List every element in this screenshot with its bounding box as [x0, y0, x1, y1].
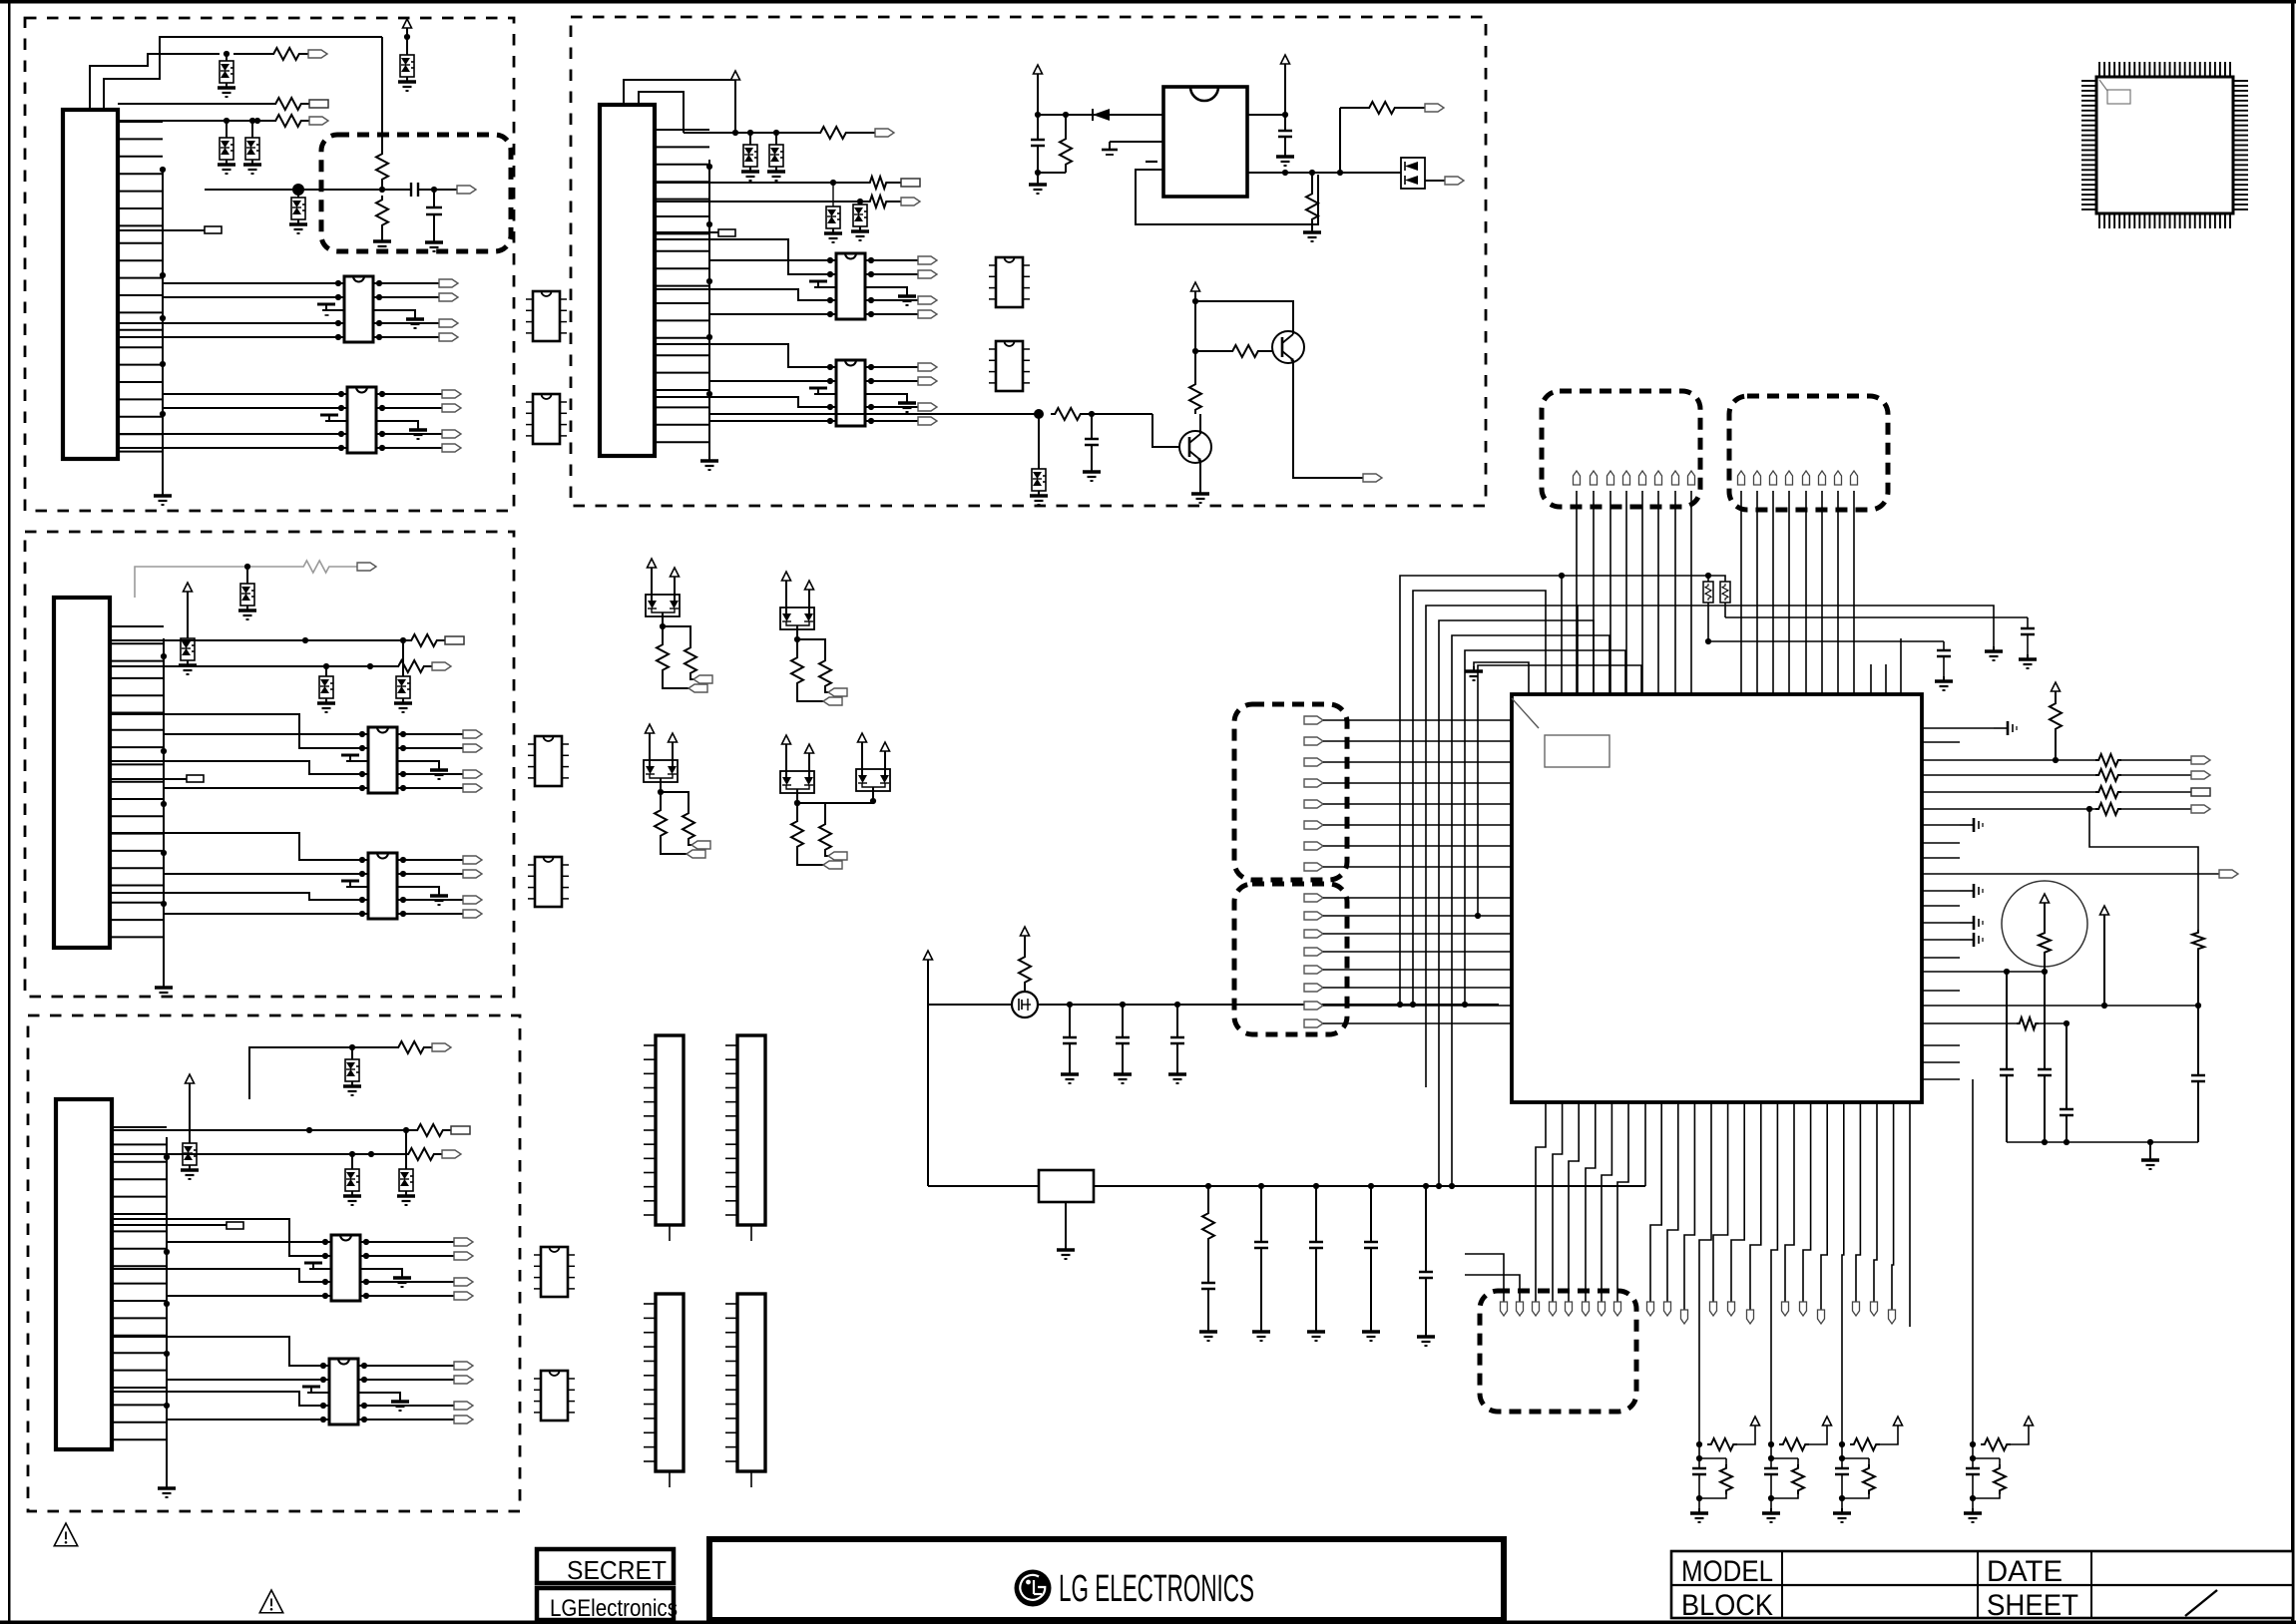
remote box 7 pins: [1304, 716, 1323, 871]
connector CN3: [56, 1099, 112, 1449]
page frame bottom border: [0, 1621, 2296, 1624]
Q2 emitter wire to output pin: [1293, 360, 1363, 478]
decoupling cap stub row 730: [1960, 721, 2017, 735]
U2 output wires and terminal pins: [382, 390, 461, 452]
terminal pin for R6: [445, 636, 464, 644]
capacitor C7 on rail: [1114, 1005, 1132, 1083]
boxed resistor pack RP1: [1703, 582, 1713, 603]
page frame right border: [2291, 0, 2295, 1624]
wires CN3 to IC U5: [112, 1219, 325, 1296]
TVS filter T14: [741, 133, 759, 181]
VCC arrow RC network RC2: [1823, 1417, 1832, 1425]
wire row 1008: [1960, 1003, 2201, 1009]
VCC arrow at U9 output: [1281, 55, 1290, 115]
CN1 pin wires to bus: [118, 122, 163, 452]
resistor R8 row: [112, 1124, 451, 1136]
decoupling cap stub row 893: [1960, 884, 1983, 898]
TVS filter T11: [181, 1143, 199, 1179]
terminal pin row 2: [2191, 771, 2210, 779]
terminal pin for R1: [308, 50, 327, 58]
U7 ground left: [809, 281, 836, 287]
terminal pin for R12: [901, 198, 920, 205]
jumper pad in block 2: [110, 775, 204, 782]
dashed block outline - key matrix block 3 (bottom-left): [28, 1015, 520, 1511]
dashed remote box 9: [1480, 1291, 1636, 1412]
CN4 pin wires to bus: [655, 130, 709, 442]
terminal pin A module DM2: [823, 697, 842, 705]
U8 output wires and terminal pins: [871, 363, 937, 425]
RC network RC1 capacitor: [1692, 1444, 1706, 1508]
terminal pin far right: [2219, 870, 2238, 878]
terminal pin B module DM4: [828, 852, 847, 860]
U5 left pin dots: [322, 1239, 331, 1299]
connector CN1: [63, 110, 118, 459]
wire from CN4 top: [624, 80, 735, 133]
capacitor C4 output: [1276, 115, 1294, 166]
svg-text:DATE: DATE: [1987, 1555, 2063, 1588]
TVS filter T1: [220, 51, 233, 83]
CN2 ground bus wire: [161, 638, 167, 983]
wires CN1 to IC U1: [118, 283, 338, 337]
U3 right pin dots: [397, 731, 406, 791]
terminal pin for R11: [901, 179, 920, 187]
bus vertical 3 left of IC: [1426, 606, 1994, 1087]
riser and resistor R15: [1340, 102, 1425, 173]
regulator IC U9: [1163, 87, 1247, 197]
feed wire to resistor packs: [1708, 576, 1725, 582]
terminal pin for R7: [432, 662, 451, 670]
regulator output rail: [1094, 1183, 1645, 1189]
remote box 8 pins: [1304, 894, 1323, 1027]
U4 ground right: [397, 887, 448, 905]
U4 ground left: [341, 881, 368, 887]
terminal pin top of block 3: [432, 1043, 451, 1051]
bus vertical 2 left of IC: [1410, 591, 1546, 1008]
ground RC network RC2: [1762, 1508, 1780, 1522]
U5 ground right: [360, 1269, 411, 1287]
wire from RP1 to cap: [1705, 603, 1944, 644]
long stub wire at IC bottom right: [1909, 1102, 1911, 1327]
remote box 6 wires down to IC: [1741, 491, 1854, 694]
link wire DM5 to DM4: [794, 800, 873, 806]
VCC pullup resistor right of IC: [2050, 682, 2062, 763]
connector CN7: [644, 1294, 684, 1487]
RC network RC4 capacitor: [1966, 1444, 1980, 1508]
bus vertical 5 left of IC: [1449, 635, 1609, 1189]
TVS filter T8: [317, 663, 335, 712]
svg-text:LG ELECTRONICS: LG ELECTRONICS: [1059, 1568, 1254, 1610]
vertical from feed dot into IC top: [1561, 576, 1563, 694]
capacitor C2 to ground in sub-block: [425, 190, 443, 251]
VCC arrow and resistor above MOSFET: [1019, 927, 1031, 992]
resistor left of module DM3: [655, 792, 687, 854]
U10 right pin stubs: [1922, 728, 1960, 1079]
bus vertical 4 left of IC: [1436, 620, 1594, 1189]
regulator REG1: [1039, 1170, 1094, 1202]
IC S4 (SOIC-8): [528, 857, 569, 907]
ground RC network RC4: [1964, 1508, 1982, 1522]
resistor R6 row: [110, 634, 445, 646]
TVS filter T7: [179, 638, 197, 674]
wire into regulator: [928, 1185, 1039, 1187]
transistor Q1 (NPN): [1152, 414, 1211, 463]
RC network RC2 parallel resistor: [1768, 1458, 1804, 1501]
top wire of block 3: [249, 1041, 432, 1099]
ground for C3: [1029, 180, 1047, 194]
RC network RC3 parallel resistor: [1839, 1458, 1875, 1501]
resistor left of module DM4: [791, 803, 823, 865]
U3 left pin dots: [359, 731, 368, 791]
LG logo: [1015, 1570, 1052, 1607]
decoupling cap stub row 827: [1960, 818, 1983, 832]
terminal pin for R8: [451, 1126, 470, 1134]
resistor R18 to Q2 base: [1195, 345, 1274, 357]
TVS filter T16: [824, 183, 842, 242]
terminal pin A module DM1: [689, 684, 707, 692]
VCC arrow block 4: [731, 71, 740, 136]
connector CN5: [644, 1035, 684, 1241]
ground RC network RC3: [1833, 1508, 1851, 1522]
RC network RC4 pull-up resistor: [1970, 1425, 2029, 1450]
terminal pin row 1: [2191, 756, 2210, 764]
U7 ground right: [865, 287, 916, 305]
wires CN2 to IC U4: [110, 833, 362, 914]
U8 right pin dots: [865, 364, 874, 424]
wire below circle: [1960, 969, 2045, 975]
resistor row 3 right of IC: [1960, 786, 2191, 798]
wire from CN1 top to TVS T1: [90, 54, 220, 110]
capacitor C10: [1307, 1186, 1325, 1341]
dashed block outline - key matrix block 2 (mid-left): [25, 532, 514, 997]
dual diode module DM5: [856, 733, 890, 804]
IC S7 (SOIC-8): [989, 257, 1030, 307]
riser from rail to regulator rail: [927, 1005, 929, 1186]
bus vertical 7 left of IC: [1475, 665, 1641, 919]
terminal pin B module DM2: [828, 688, 847, 696]
terminal pin for R15: [1425, 104, 1444, 112]
U9 pin tick: [1146, 161, 1157, 163]
U1 left pin dots: [335, 280, 344, 340]
U8 ground right: [865, 394, 916, 412]
ground for CN4 bus: [700, 456, 718, 470]
calibration circle: [2002, 881, 2087, 967]
resistor R3 row: [118, 115, 309, 127]
U3 ground left: [341, 755, 368, 761]
terminal pin B module DM1: [693, 675, 712, 683]
bus vertical 6 left of IC: [1462, 650, 1625, 1008]
VCC arrow block 2: [184, 583, 193, 638]
photocoupler diode module: [1401, 158, 1445, 189]
dashed block outline - block 4 (top-middle): [571, 17, 1486, 506]
IC S1 (SOIC-8): [526, 291, 567, 341]
TVS filter T15: [767, 133, 785, 181]
long wire row to far pin: [1960, 873, 2219, 875]
jumper pad in block 3: [112, 1222, 243, 1229]
U1 output wires and terminal pins: [379, 279, 458, 341]
wire row with TVS pair block 4: [684, 130, 816, 136]
wire from RP2 to cap: [1725, 603, 2028, 617]
CN3 pin wires to bus: [112, 1127, 167, 1439]
U7 right pin dots: [865, 257, 874, 317]
SECRET box: [537, 1549, 678, 1622]
svg-text:SECRET: SECRET: [567, 1555, 667, 1585]
U2 right pin dots: [376, 391, 385, 451]
VCC arrow and TVS T2 top right of block 1: [382, 19, 416, 150]
VCC arrow RC network RC1: [1751, 1417, 1760, 1425]
rail riser into IC bottom: [1644, 1102, 1646, 1186]
ground for T1: [218, 83, 235, 97]
RC network RC3 capacitor: [1835, 1444, 1849, 1508]
U5 output wires and terminal pins: [366, 1238, 473, 1300]
connector CN6: [725, 1035, 765, 1241]
resistor R9 row: [112, 1148, 442, 1160]
resistor row 1026: [1960, 1017, 2069, 1109]
decoupling cap stub row 925: [1960, 916, 1983, 930]
VCC arrow power section: [1034, 65, 1043, 118]
U6 left pin dots: [320, 1363, 329, 1422]
terminal pin row 3: [2191, 788, 2210, 796]
page frame left border: [8, 0, 11, 1624]
connector CN8: [725, 1294, 765, 1487]
U6 ground right: [358, 1393, 409, 1411]
CN2 pin wires to bus: [110, 626, 164, 937]
power rail wire: [928, 1002, 1499, 1008]
QFP IC U11 body: [2096, 77, 2233, 213]
Q1 collector resistor R17: [1189, 380, 1201, 434]
capacitor C12: [1417, 1186, 1435, 1346]
QFP U11 pins: [2081, 62, 2248, 228]
svg-text:BLOCK: BLOCK: [1681, 1589, 1773, 1622]
sub-block signal wire and junction node: [205, 184, 411, 196]
VCC arrow RC network RC4: [2025, 1417, 2034, 1425]
terminal pin gray wire: [357, 563, 376, 571]
ground for IC top hook: [1465, 666, 1483, 680]
remote box 5 wires down to IC: [1577, 491, 1691, 694]
terminal pin A module DM3: [687, 850, 705, 858]
resistor R2 row: [118, 98, 309, 110]
bottom fan group D wires: [1785, 1102, 1827, 1310]
U3 output wires and terminal pins: [403, 730, 482, 792]
resistor right of module DM2: [797, 639, 831, 692]
TVS filter T18: [1030, 414, 1048, 505]
resistor right of module DM3: [661, 792, 694, 845]
ground for REG1: [1057, 1202, 1075, 1259]
IC S5 (SOIC-8): [534, 1247, 575, 1297]
U9 output bottom wire: [1247, 170, 1401, 176]
IC U4 (DIP-8): [368, 853, 397, 919]
RC network RC1 pull-up resistor: [1696, 1425, 1755, 1450]
terminal pin transistor output: [1363, 474, 1382, 482]
VCC arrow left of power rail: [924, 951, 933, 1005]
terminal pin for R9: [442, 1150, 461, 1158]
U9 output top wire: [1247, 112, 1288, 118]
wire to regulator input: [1038, 112, 1163, 118]
decoupling cap stub row 942: [1960, 933, 1983, 947]
page frame top border: [0, 0, 2296, 4]
IC U5 (DIP-8): [331, 1235, 360, 1301]
VCC arrow right column: [2100, 906, 2109, 1009]
IC S2 (SOIC-8): [526, 394, 567, 444]
bus vertical 1 left of IC: [1397, 573, 1717, 1008]
resistor R14 to ground: [1303, 173, 1321, 241]
capacitor C14: [2019, 617, 2037, 668]
pin row group D: [1782, 1302, 1825, 1324]
resistor R16: [1051, 408, 1152, 420]
VCC feed for transistor stage: [1191, 282, 1200, 380]
IC U7 (DIP-8): [836, 253, 865, 319]
wires CN2 to IC U3: [110, 714, 362, 788]
RC network RC2 capacitor: [1764, 1444, 1778, 1508]
warning triangle 2: [259, 1590, 282, 1613]
TVS filter T17: [851, 202, 869, 240]
terminal pin B module DM3: [691, 841, 710, 849]
pin row group C: [1710, 1302, 1754, 1324]
U4 output wires and terminal pins: [403, 856, 482, 918]
terminal pin photocoupler: [1445, 177, 1464, 185]
U6 right pin dots: [358, 1363, 367, 1422]
U7 left pin dots: [827, 257, 836, 317]
capacitor C3 input filter: [1031, 115, 1045, 180]
feed wires pins A1 A2 from left: [1465, 1254, 1520, 1302]
resistor R11 row: [655, 177, 901, 189]
U6 output wires and terminal pins: [364, 1362, 473, 1423]
U3 ground right: [397, 761, 448, 779]
capacitor C5: [1083, 414, 1101, 481]
VCC arrow RC network RC3: [1894, 1417, 1903, 1425]
TVS filter T13: [397, 1127, 415, 1205]
TVS filter T12: [343, 1151, 361, 1205]
CN4 ground bus wire: [706, 160, 712, 456]
capacitor bank below circle: [2000, 972, 2205, 1142]
U2 left pin dots: [338, 391, 347, 451]
transistor Q2 (NPN): [1272, 331, 1304, 363]
U2 ground left: [320, 415, 347, 421]
pin row group E: [1853, 1302, 1896, 1324]
dashed remote box 7: [1234, 704, 1347, 880]
MOSFET Q3: [1012, 992, 1038, 1017]
bottom fan group A wires: [1536, 1102, 1628, 1302]
capacitor C6 on rail: [1061, 1005, 1079, 1083]
far right resistor to caps: [2192, 930, 2204, 1075]
branch wire from row 4 down: [2089, 809, 2198, 930]
IC U1 (DIP-8): [344, 276, 373, 342]
Q2 collector wire: [1195, 301, 1293, 334]
wire to RC network 3: [1842, 1102, 1844, 1444]
sheet slash mark: [2185, 1590, 2217, 1616]
U7 output wires and terminal pins: [871, 256, 937, 318]
resistor inside circle: [2039, 930, 2051, 975]
ground for CN2 bus: [155, 983, 173, 997]
diode D1: [1093, 109, 1110, 121]
IC S8 (SOIC-8): [989, 341, 1030, 391]
capacitor C11: [1362, 1186, 1380, 1341]
U2 ground right: [376, 421, 427, 439]
RC network RC4 parallel resistor: [1970, 1458, 2006, 1501]
U5 ground left: [304, 1263, 331, 1269]
main title block with LG logo: [709, 1539, 1504, 1620]
wire to RC network 2: [1771, 1102, 1777, 1444]
dual diode module DM1: [646, 559, 680, 629]
wires CN4 to IC U7: [655, 239, 830, 314]
RC network RC1 parallel resistor: [1696, 1458, 1732, 1501]
resistor right of module DM1: [663, 626, 696, 679]
ground for capacitor bank: [2141, 1142, 2159, 1169]
dual diode module DM3: [644, 724, 678, 795]
U1 right pin dots: [373, 280, 382, 340]
remote box 7 wires to IC: [1323, 720, 1512, 867]
IC S6 (SOIC-8): [534, 1371, 575, 1421]
terminal pin for R10: [875, 129, 894, 137]
wires CN4 to IC U8: [655, 344, 830, 421]
resistor R10: [816, 127, 875, 139]
U5 right pin dots: [360, 1239, 369, 1299]
RC network RC3 pull-up resistor: [1839, 1425, 1898, 1450]
TVS filter T6: [238, 564, 256, 619]
wire from CN1 top along top of block 1: [104, 37, 382, 110]
resistor row 1 right of IC: [1960, 754, 2191, 766]
svg-text:LGElectronics: LGElectronics: [550, 1595, 678, 1622]
U9 left pin to ground: [1102, 142, 1163, 155]
resistor left of module DM2: [791, 639, 823, 701]
IC U2 (DIP-8): [347, 387, 376, 453]
dashed block outline - key matrix block 1 (top-left): [25, 18, 514, 511]
gray sense wire of block 2: [135, 561, 357, 598]
resistor R7 row: [110, 660, 432, 672]
CN1 ground bus wire: [160, 167, 166, 491]
remote box 6 pins: [1738, 471, 1858, 485]
resistor R4 vertical in sub-block: [376, 150, 388, 190]
wire to RC network 1: [1699, 1102, 1711, 1444]
U1 ground right: [373, 310, 424, 328]
bottom fan group E wires: [1856, 1102, 1894, 1310]
dashed remote box 5: [1542, 391, 1700, 507]
CN3 ground bus wire: [164, 1137, 170, 1483]
ground right of feeder: [1985, 646, 2003, 660]
MODEL BLOCK DATE SHEET table: [1671, 1551, 2293, 1622]
capacitor bank bus: [2007, 1139, 2198, 1145]
U9 feedback loop wire: [1136, 170, 1318, 224]
dashed remote box 8: [1234, 884, 1347, 1034]
terminal pin for R2: [309, 100, 328, 108]
U1 ground left: [317, 304, 344, 315]
remote box 8 wires to IC: [1323, 898, 1512, 1023]
pin row group A: [1501, 1302, 1621, 1316]
resistor R13 vertical: [1038, 115, 1072, 173]
jumper pad in block 4: [655, 229, 735, 236]
ground for CN1 bus: [154, 491, 172, 505]
wires CN1 to IC U2: [118, 394, 341, 448]
long signal wire to transistor stage: [709, 409, 1044, 419]
resistor row 4 right of IC: [1960, 803, 2191, 815]
resistor row 2 right of IC: [1960, 769, 2191, 781]
resistor R1: [233, 48, 308, 60]
resistor R5 to ground in sub-block: [373, 196, 391, 250]
dual diode module DM4: [780, 735, 814, 806]
dashed rounded sub-block inside block 1: [321, 135, 511, 251]
resistor right of module DM4: [797, 803, 831, 856]
IC U8 (DIP-8): [836, 360, 865, 426]
svg-text:SHEET: SHEET: [1987, 1589, 2078, 1622]
LG ELECTRONICS text: [1059, 1568, 1254, 1610]
resistor left of module DM1: [657, 626, 689, 688]
bottom fan group C wires: [1713, 1102, 1761, 1310]
resistor R12 row: [655, 196, 901, 207]
U10 extra top stubs: [1871, 638, 1901, 694]
bottom fan group B wires: [1650, 1102, 1694, 1310]
connector CN2: [54, 598, 110, 948]
capacitor C13: [1935, 641, 1953, 690]
jumper pad in block 1: [118, 226, 222, 233]
